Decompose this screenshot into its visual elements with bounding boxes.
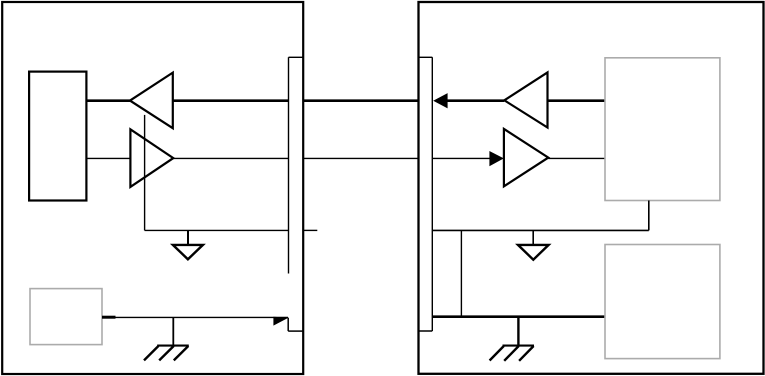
chassis ground hatch 2 (left) <box>159 346 174 360</box>
left device box (DTE #1) <box>2 2 303 374</box>
wire connector to arrowhead (right, thin) <box>432 157 489 159</box>
wire driver tip to left connector (thin) <box>173 157 288 159</box>
interface IC box (upper right, gray) <box>605 58 720 201</box>
signal ground bus wire (left) <box>145 229 289 231</box>
half arrowhead on chassis wire (points right) <box>273 317 288 326</box>
right connector bar top <box>419 56 433 58</box>
chassis ground hatch 3 (right) <box>519 346 534 361</box>
wire receiver base to IC box (right, thick) <box>548 99 606 102</box>
receiver buffer U1 (left, points left) <box>130 73 173 129</box>
signal ground symbol (right, open triangle) <box>518 245 549 260</box>
chassis wire (bottom left, thin) <box>102 316 288 318</box>
chassis wire thick stub (bottom left) <box>102 316 116 319</box>
receiver buffer U3 (right, points left) <box>504 72 547 127</box>
right connector bar edge <box>431 57 433 331</box>
chassis ground symbol stub (right) <box>517 317 519 346</box>
cable wire between connectors (thick, top) <box>303 99 419 102</box>
signal ground symbol stub (right) <box>532 230 534 244</box>
chassis wire (bottom right, thick) <box>432 315 605 318</box>
wire IC box bottom to ground bus (right) <box>648 201 650 231</box>
arrowhead into driver base (points right) <box>489 151 503 166</box>
chassis wire step down <box>287 318 289 331</box>
signal ground symbol (left, open triangle) <box>173 245 203 259</box>
right device box (DTE #2) <box>419 2 764 374</box>
protocol box (lower right, gray) <box>605 245 720 359</box>
chassis ground bar (right) <box>503 345 535 347</box>
chassis box (bottom left, gray) <box>30 289 102 345</box>
driver buffer U4 (right, points right) <box>504 129 548 186</box>
signal ground bus wire (right) <box>432 229 649 231</box>
right connector bar bottom <box>419 330 433 332</box>
chassis ground hatch 1 (right) <box>490 346 504 361</box>
chassis ground hatch 1 (left) <box>144 346 158 360</box>
chassis ground hatch 2 (right) <box>504 346 519 361</box>
chassis wire step to border <box>288 330 303 332</box>
vertical ground drop wire (left) <box>144 115 146 230</box>
wire arrow to receiver tip (right, thick) <box>448 99 505 102</box>
left connector bar top <box>289 56 304 58</box>
wire receiver base to left connector (thick) <box>173 99 289 102</box>
signal ground stub right of left box border <box>303 229 317 231</box>
vertical wire connector to chassis wire (right) <box>460 230 462 316</box>
wire UART to driver base (TX, thin) <box>86 157 130 159</box>
wire driver tip to IC box (right, thin) <box>548 157 605 159</box>
driver buffer U2 (left, points right) <box>130 129 173 187</box>
left connector bar edge <box>288 57 290 273</box>
chassis ground symbol stub (left) <box>172 317 174 345</box>
cable wire between connectors (thin, lower) <box>303 157 419 159</box>
chassis ground bar (left) <box>157 345 189 347</box>
signal ground symbol stub (left) <box>187 230 189 244</box>
wire UART to receiver tip (RX, thick) <box>86 99 130 102</box>
UART block (left) <box>29 72 86 201</box>
chassis ground hatch 3 (left) <box>174 346 189 360</box>
arrowhead into right connector (points left) <box>433 93 447 108</box>
